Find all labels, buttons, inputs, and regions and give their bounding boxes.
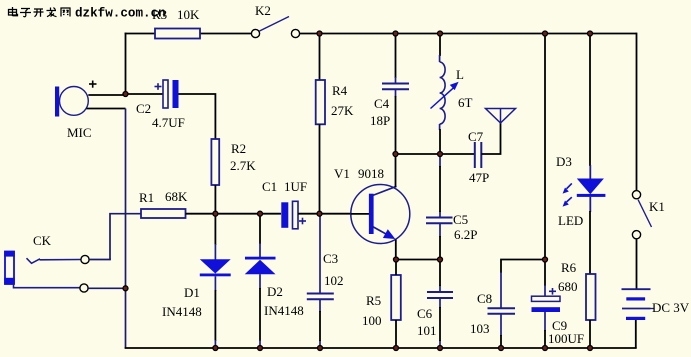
label + (C2) xyxy=(155,83,162,90)
wire CK sleeve circle to ground wire xyxy=(88,287,125,289)
svg-text:C1: C1 xyxy=(262,179,277,194)
svg-text:IN4148: IN4148 xyxy=(162,304,202,319)
wire ground rail xyxy=(125,347,637,349)
diode D2 xyxy=(245,214,276,348)
wire node A to C2 xyxy=(126,93,164,95)
resistor R1 xyxy=(141,209,186,218)
LED D3 xyxy=(577,179,606,197)
label + (MIC) xyxy=(89,81,97,88)
microphone MIC xyxy=(55,87,88,117)
node ground R5 xyxy=(394,346,399,351)
wire top-left drop to MIC node xyxy=(125,33,127,94)
svg-text:V1: V1 xyxy=(334,166,350,181)
resistor R6 xyxy=(586,274,596,320)
svg-text:K2: K2 xyxy=(255,3,271,18)
node osc L/C5 junction xyxy=(438,152,443,157)
wire MIC+ to node A xyxy=(88,94,125,96)
capacitor C1 xyxy=(281,201,298,229)
svg-text:68K: 68K xyxy=(165,189,188,204)
svg-text:6T: 6T xyxy=(458,95,473,110)
node ground C9 xyxy=(543,346,548,351)
wire osc node to C7 xyxy=(396,153,475,155)
wire C8 bottom lead xyxy=(500,314,502,336)
wire C4 top lead xyxy=(395,34,397,79)
wire C6 leads xyxy=(439,285,441,348)
wire emitter down xyxy=(395,240,397,260)
svg-text:MIC: MIC xyxy=(67,125,92,140)
node ground C3 xyxy=(318,346,323,351)
capacitor C2 xyxy=(163,80,179,108)
wire C3 top lead xyxy=(319,214,321,293)
svg-text:100UF: 100UF xyxy=(548,331,584,346)
svg-text:102: 102 xyxy=(324,273,344,288)
wire LED drop x=590 xyxy=(589,34,591,167)
svg-text:R5: R5 xyxy=(366,293,381,308)
node base junction C1/C3/R4 xyxy=(317,211,322,216)
node ground C8 xyxy=(499,346,504,351)
wire C8 branch xyxy=(501,260,545,274)
svg-text:10K: 10K xyxy=(177,7,200,22)
terminal circle CK sleeve xyxy=(80,284,88,292)
wire C4 bottom lead xyxy=(395,89,397,97)
capacitor C9 (electrolytic) xyxy=(532,296,561,312)
label + (C9) xyxy=(549,288,556,295)
svg-text:6.2P: 6.2P xyxy=(454,227,477,242)
wire collector to osc node xyxy=(395,154,397,187)
switch K1 xyxy=(632,191,651,239)
capacitor C3 xyxy=(307,294,334,300)
wire CK sleeve from jack xyxy=(14,284,80,288)
svg-text:680: 680 xyxy=(558,279,578,294)
jack tip contact check xyxy=(27,258,41,263)
svg-text:C4: C4 xyxy=(374,96,390,111)
wire R5 leads xyxy=(395,260,397,349)
svg-text:R3: R3 xyxy=(152,7,167,22)
wire C5 bottom lead xyxy=(439,223,441,237)
capacitor C6 xyxy=(427,292,453,298)
label + (C1) xyxy=(299,218,306,225)
svg-text:R2: R2 xyxy=(231,141,246,156)
wire emitter rail xyxy=(396,259,440,261)
wire C1 to base node xyxy=(298,213,352,215)
node osc collector junction xyxy=(393,152,398,157)
node A junction (MIC/R3/C2) xyxy=(123,92,128,97)
svg-text:L: L xyxy=(456,67,464,82)
wire L bottom lead xyxy=(439,124,441,130)
jack CK xyxy=(4,251,15,284)
node top rail C9 xyxy=(543,31,548,36)
svg-text:103: 103 xyxy=(470,321,490,336)
svg-text:CK: CK xyxy=(33,233,52,248)
svg-text:R1: R1 xyxy=(139,190,154,205)
logo 电子开发网 (hand-drawn glyphs) xyxy=(9,7,71,17)
resistor R4 xyxy=(316,80,325,124)
node base-line junction D2 xyxy=(258,211,263,216)
子 xyxy=(20,9,31,17)
diode D1 xyxy=(200,214,231,348)
wire R4 top lead xyxy=(319,34,321,81)
svg-text:C7: C7 xyxy=(468,129,484,144)
电 xyxy=(9,7,18,16)
node C8/C9 junction xyxy=(543,257,548,262)
resistor R2 xyxy=(211,139,219,185)
node CK/ground junction xyxy=(123,286,128,291)
wire R1 left lead xyxy=(110,214,141,260)
svg-text:C2: C2 xyxy=(136,101,151,116)
svg-text:100: 100 xyxy=(362,313,382,328)
transistor V1 xyxy=(351,185,410,244)
wire R1 right to C1 xyxy=(186,213,282,215)
wire CK tip circle to R1 xyxy=(89,259,111,261)
wire L top lead xyxy=(439,34,441,57)
node top rail LED xyxy=(588,31,593,36)
svg-text:K1: K1 xyxy=(649,199,665,214)
resistor R3 xyxy=(155,29,200,39)
svg-text:47P: 47P xyxy=(469,170,489,185)
发 xyxy=(47,8,57,17)
wire C5 top lead xyxy=(439,154,441,218)
svg-text:R6: R6 xyxy=(561,260,577,275)
svg-text:101: 101 xyxy=(417,323,437,338)
wire K2 to top rail right end xyxy=(300,33,637,35)
svg-text:DC 3V: DC 3V xyxy=(652,300,690,315)
capacitor C5 xyxy=(426,218,453,224)
svg-text:C8: C8 xyxy=(477,291,492,306)
terminal circle CK tip xyxy=(81,255,89,263)
wire C7 to antenna xyxy=(481,122,500,154)
node top rail C4 xyxy=(393,31,398,36)
wire CK tip to circle xyxy=(40,259,81,261)
wire R4 bottom to base node xyxy=(319,124,321,213)
svg-text:2.7K: 2.7K xyxy=(230,158,256,173)
wire LED to R6 xyxy=(589,197,591,212)
inductor adjust arrow xyxy=(431,82,459,109)
wire R2 bottom to base line xyxy=(214,185,216,214)
svg-text:C5: C5 xyxy=(453,212,468,227)
网 xyxy=(61,8,70,17)
node base-line junction R1/R2/D1 xyxy=(213,211,218,216)
antenna xyxy=(486,109,516,124)
node ground D2 xyxy=(258,346,263,351)
capacitor C7 xyxy=(475,142,482,168)
svg-text:1UF: 1UF xyxy=(284,179,307,194)
switch K2 xyxy=(251,17,299,38)
wire Vcc drop x=545 xyxy=(544,34,546,287)
wire R3 to K2 xyxy=(200,33,251,35)
node top rail R4 xyxy=(317,31,322,36)
node ground D1 xyxy=(213,346,218,351)
wire C3 bottom lead xyxy=(319,299,321,348)
svg-text:D2: D2 xyxy=(267,284,283,299)
battery DC 3V xyxy=(622,289,655,320)
node emitter junction xyxy=(394,257,399,262)
resistor R5 xyxy=(391,275,401,320)
wire MIC- down to ground rail xyxy=(87,108,126,110)
node ground R6 xyxy=(588,346,593,351)
svg-text:C6: C6 xyxy=(417,306,433,321)
node ground C6 xyxy=(438,346,443,351)
svg-text:LED: LED xyxy=(558,213,583,228)
svg-text:18P: 18P xyxy=(370,113,390,128)
capacitor C4 xyxy=(382,84,409,90)
svg-text:D3: D3 xyxy=(556,154,572,169)
svg-text:4.7UF: 4.7UF xyxy=(152,115,185,130)
svg-text:D1: D1 xyxy=(184,285,200,300)
wire top rail left to R3 xyxy=(125,33,155,35)
wire C2 to R2 top xyxy=(179,94,216,139)
wire K1 to battery xyxy=(636,239,638,289)
wire R6 bottom lead xyxy=(589,320,591,348)
wire battery to ground rail xyxy=(635,320,637,348)
node C5/C6 junction xyxy=(438,257,443,262)
svg-text:C3: C3 xyxy=(323,251,338,266)
svg-text:9018: 9018 xyxy=(358,166,384,181)
wire C9 bottom lead xyxy=(544,312,546,331)
svg-text:IN4148: IN4148 xyxy=(264,303,304,318)
wire K1 drop xyxy=(636,33,638,191)
开 xyxy=(34,9,44,17)
capacitor C8 xyxy=(488,308,516,314)
LED arrows xyxy=(563,183,572,206)
svg-text:27K: 27K xyxy=(331,103,354,118)
inductor L xyxy=(440,62,446,124)
node top rail L xyxy=(438,31,443,36)
svg-text:R4: R4 xyxy=(332,83,348,98)
